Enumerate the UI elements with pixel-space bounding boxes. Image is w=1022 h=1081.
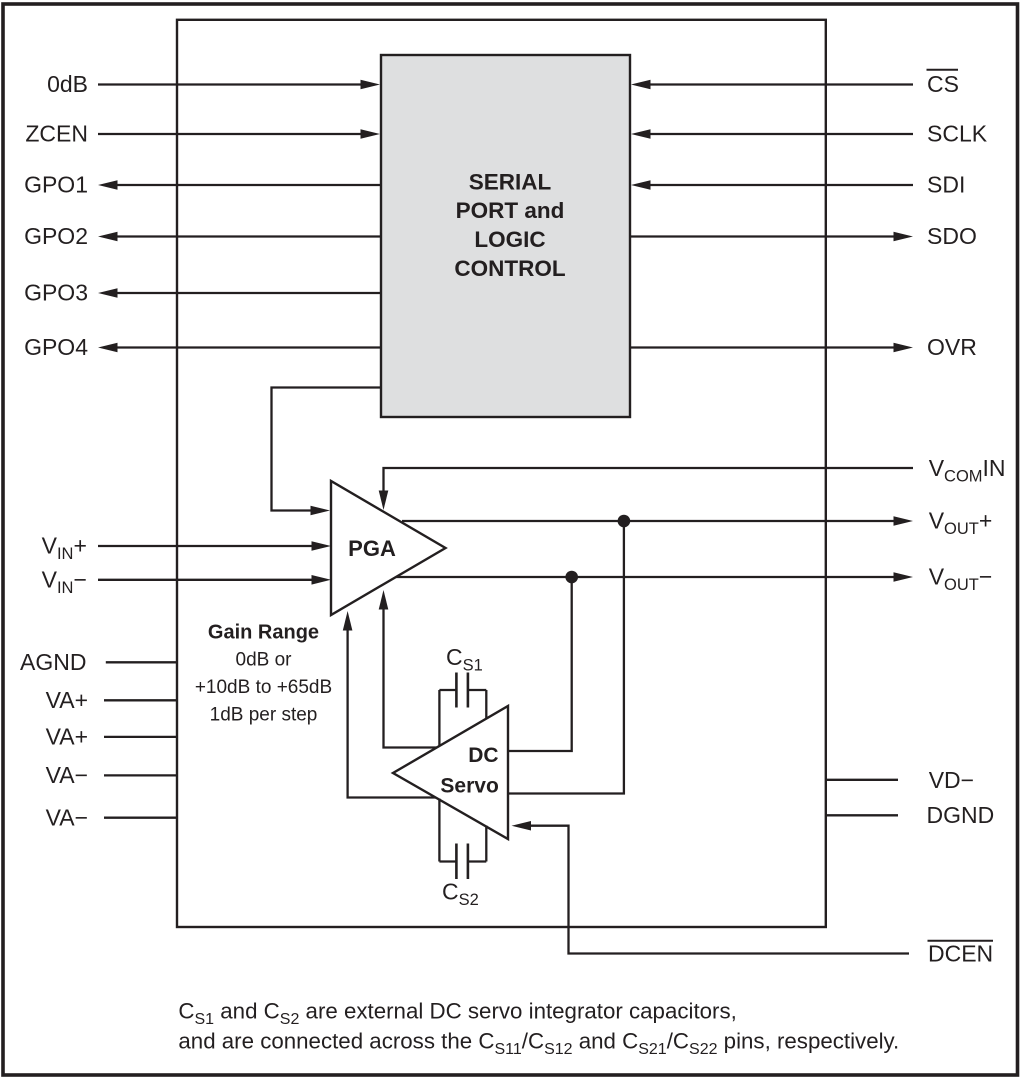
pin VOUT- label [929, 564, 993, 595]
pin SDI label [927, 172, 965, 198]
pin OVR label [927, 334, 977, 360]
svg-text:Gain Range: Gain Range [208, 622, 319, 644]
wire ZCEN input [98, 129, 380, 139]
op-amp DC servo U2 [393, 706, 508, 839]
svg-text:SERIAL: SERIAL [469, 169, 552, 194]
svg-text:0dB: 0dB [47, 71, 88, 97]
wire DCEN to servo enable [512, 821, 910, 954]
wire 0dB input [98, 80, 380, 90]
pin VA+ label (first) [46, 687, 88, 713]
svg-text:VA−: VA− [46, 762, 88, 788]
wire DGND stub [826, 814, 898, 816]
wire CS input [631, 80, 913, 90]
svg-text:ZCEN: ZCEN [25, 121, 88, 147]
pin ZCEN label [25, 121, 88, 147]
svg-text:CS: CS [927, 71, 959, 97]
serial port and logic control block U1 [381, 55, 630, 417]
wire VD- stub [826, 779, 898, 781]
wire servo lower output to VOUT+ node [508, 521, 624, 794]
pin SDO label [927, 223, 977, 249]
wire VA- stub (second) [104, 817, 177, 819]
pin GPO4 label [24, 334, 88, 360]
wire PGA feedback from servo output B [343, 611, 437, 798]
wire GPO2 output [98, 232, 381, 242]
wire GPO1 output [98, 180, 381, 190]
svg-text:PGA: PGA [348, 536, 396, 561]
capacitor CS2 [439, 799, 486, 880]
svg-text:1dB per step: 1dB per step [210, 705, 318, 726]
wire servo upper output to VOUT- node [508, 577, 572, 751]
svg-text:AGND: AGND [20, 649, 86, 675]
wire VIN+ input [98, 541, 331, 551]
wire VA- stub (first) [104, 774, 177, 776]
wire SCLK input [631, 129, 913, 139]
pin VCOM IN label [929, 455, 1006, 486]
svg-text:LOGIC: LOGIC [474, 227, 545, 252]
pin DGND label [927, 802, 995, 828]
wire AGND stub [106, 661, 177, 663]
pin VA- label (second) [46, 805, 88, 831]
value label CS1 [446, 644, 483, 675]
wire VIN- input [98, 575, 331, 585]
pin DCEN-bar label [928, 941, 994, 967]
wire VOUT+ output [402, 516, 913, 526]
svg-text:PORT and: PORT and [456, 198, 565, 223]
svg-text:DGND: DGND [927, 802, 995, 828]
pin VD- label [929, 767, 974, 793]
pin GPO1 label [24, 172, 88, 198]
pin VIN- label [42, 566, 87, 597]
pin VOUT+ label [929, 508, 993, 539]
svg-text:SDI: SDI [927, 172, 965, 198]
IC boundary box [177, 20, 826, 927]
pin SCLK label [927, 121, 988, 147]
svg-text:OVR: OVR [927, 334, 977, 360]
wire serial control to PGA [272, 388, 382, 516]
svg-text:GPO1: GPO1 [24, 172, 88, 198]
svg-text:VD−: VD− [929, 767, 974, 793]
svg-text:VA+: VA+ [46, 687, 88, 713]
wire VCOM IN to PGA [379, 468, 913, 510]
node junction on VOUT+ [618, 515, 631, 528]
wire GPO3 output [98, 288, 381, 298]
wire VA+ stub (second) [104, 736, 177, 738]
pin CS-bar label [927, 70, 959, 97]
wire PGA feedback from servo output A [379, 590, 440, 748]
capacitor CS1 [439, 673, 486, 749]
svg-text:VA+: VA+ [46, 724, 88, 750]
svg-text:SCLK: SCLK [927, 121, 988, 147]
pin 0dB label [47, 71, 88, 97]
svg-text:0dB or: 0dB or [236, 650, 293, 671]
wire OVR output [630, 343, 913, 353]
svg-text:DCEN: DCEN [928, 941, 993, 967]
wire SDI input [631, 180, 913, 190]
wire VA+ stub (first) [104, 699, 177, 701]
pin GPO2 label [24, 223, 88, 249]
pin VA+ label (second) [46, 724, 88, 750]
svg-text:+10dB to +65dB: +10dB to +65dB [195, 677, 332, 698]
svg-text:GPO3: GPO3 [24, 280, 88, 306]
note text about CS1 and CS2 [178, 999, 899, 1058]
pin VIN+ label [42, 533, 87, 564]
pin AGND label [20, 649, 86, 675]
svg-text:SDO: SDO [927, 223, 977, 249]
value label CS2 [442, 879, 479, 910]
pin VA- label (first) [46, 762, 88, 788]
pin GPO3 label [24, 280, 88, 306]
wire VOUT- output [396, 572, 913, 582]
svg-text:GPO4: GPO4 [24, 334, 88, 360]
svg-text:GPO2: GPO2 [24, 223, 88, 249]
svg-text:DC: DC [468, 744, 498, 767]
svg-text:Servo: Servo [440, 775, 498, 798]
wire SDO output [630, 232, 913, 242]
svg-text:VA−: VA− [46, 805, 88, 831]
node junction on VOUT- [565, 571, 578, 584]
gain range annotation [195, 622, 332, 726]
wire GPO4 output [98, 343, 381, 353]
op-amp PGA [331, 481, 446, 615]
svg-text:CONTROL: CONTROL [454, 256, 565, 281]
